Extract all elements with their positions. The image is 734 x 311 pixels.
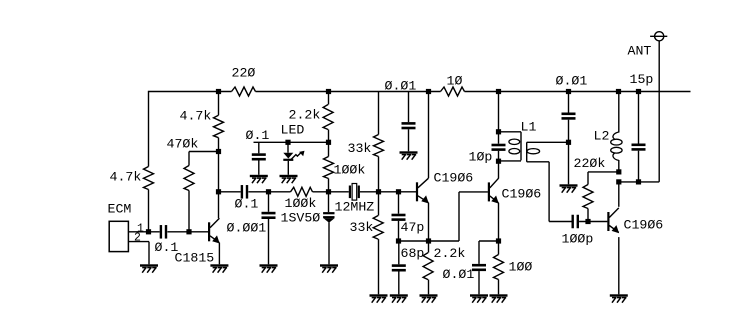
svg-text:12MHZ: 12MHZ (335, 199, 375, 214)
svg-text:ECM: ECM (108, 201, 132, 216)
svg-text:2.2k: 2.2k (289, 107, 321, 122)
svg-text:1Ø: 1Ø (447, 73, 463, 88)
svg-text:Ø.1: Ø.1 (246, 128, 270, 143)
svg-text:47Øk: 47Øk (167, 136, 199, 151)
svg-text:Ø.ØØ1: Ø.ØØ1 (227, 220, 267, 235)
svg-text:ANT: ANT (628, 43, 652, 58)
svg-text:Ø.Ø1: Ø.Ø1 (443, 267, 475, 282)
svg-text:33k: 33k (348, 141, 372, 156)
svg-text:2.2k: 2.2k (434, 246, 466, 261)
svg-text:Ø.Ø1: Ø.Ø1 (556, 73, 588, 88)
svg-text:15p: 15p (630, 72, 654, 87)
svg-text:C19Ø6: C19Ø6 (624, 217, 664, 232)
svg-text:1SV5Ø: 1SV5Ø (281, 210, 321, 225)
svg-text:2: 2 (134, 232, 141, 245)
svg-text:Ø.1: Ø.1 (235, 196, 259, 211)
svg-text:1Øp: 1Øp (469, 149, 493, 164)
svg-text:4.7k: 4.7k (180, 108, 212, 123)
svg-text:L1: L1 (521, 119, 537, 134)
svg-text:68p: 68p (401, 246, 425, 261)
svg-text:Ø.Ø1: Ø.Ø1 (385, 78, 417, 93)
svg-text:1ØØ: 1ØØ (509, 259, 533, 274)
svg-text:22Øk: 22Øk (574, 156, 606, 171)
svg-text:1ØØk: 1ØØk (285, 196, 317, 211)
svg-text:C1815: C1815 (175, 250, 215, 265)
svg-text:33k: 33k (350, 220, 374, 235)
svg-text:1ØØp: 1ØØp (562, 231, 594, 246)
svg-text:47p: 47p (401, 220, 425, 235)
svg-text:C19Ø6: C19Ø6 (502, 186, 542, 201)
svg-text:L2: L2 (594, 128, 610, 143)
svg-text:C19Ø6: C19Ø6 (434, 170, 474, 185)
svg-text:4.7k: 4.7k (110, 169, 142, 184)
svg-text:22Ø: 22Ø (232, 65, 256, 80)
svg-text:LED: LED (281, 122, 305, 137)
svg-text:1ØØk: 1ØØk (334, 162, 366, 177)
